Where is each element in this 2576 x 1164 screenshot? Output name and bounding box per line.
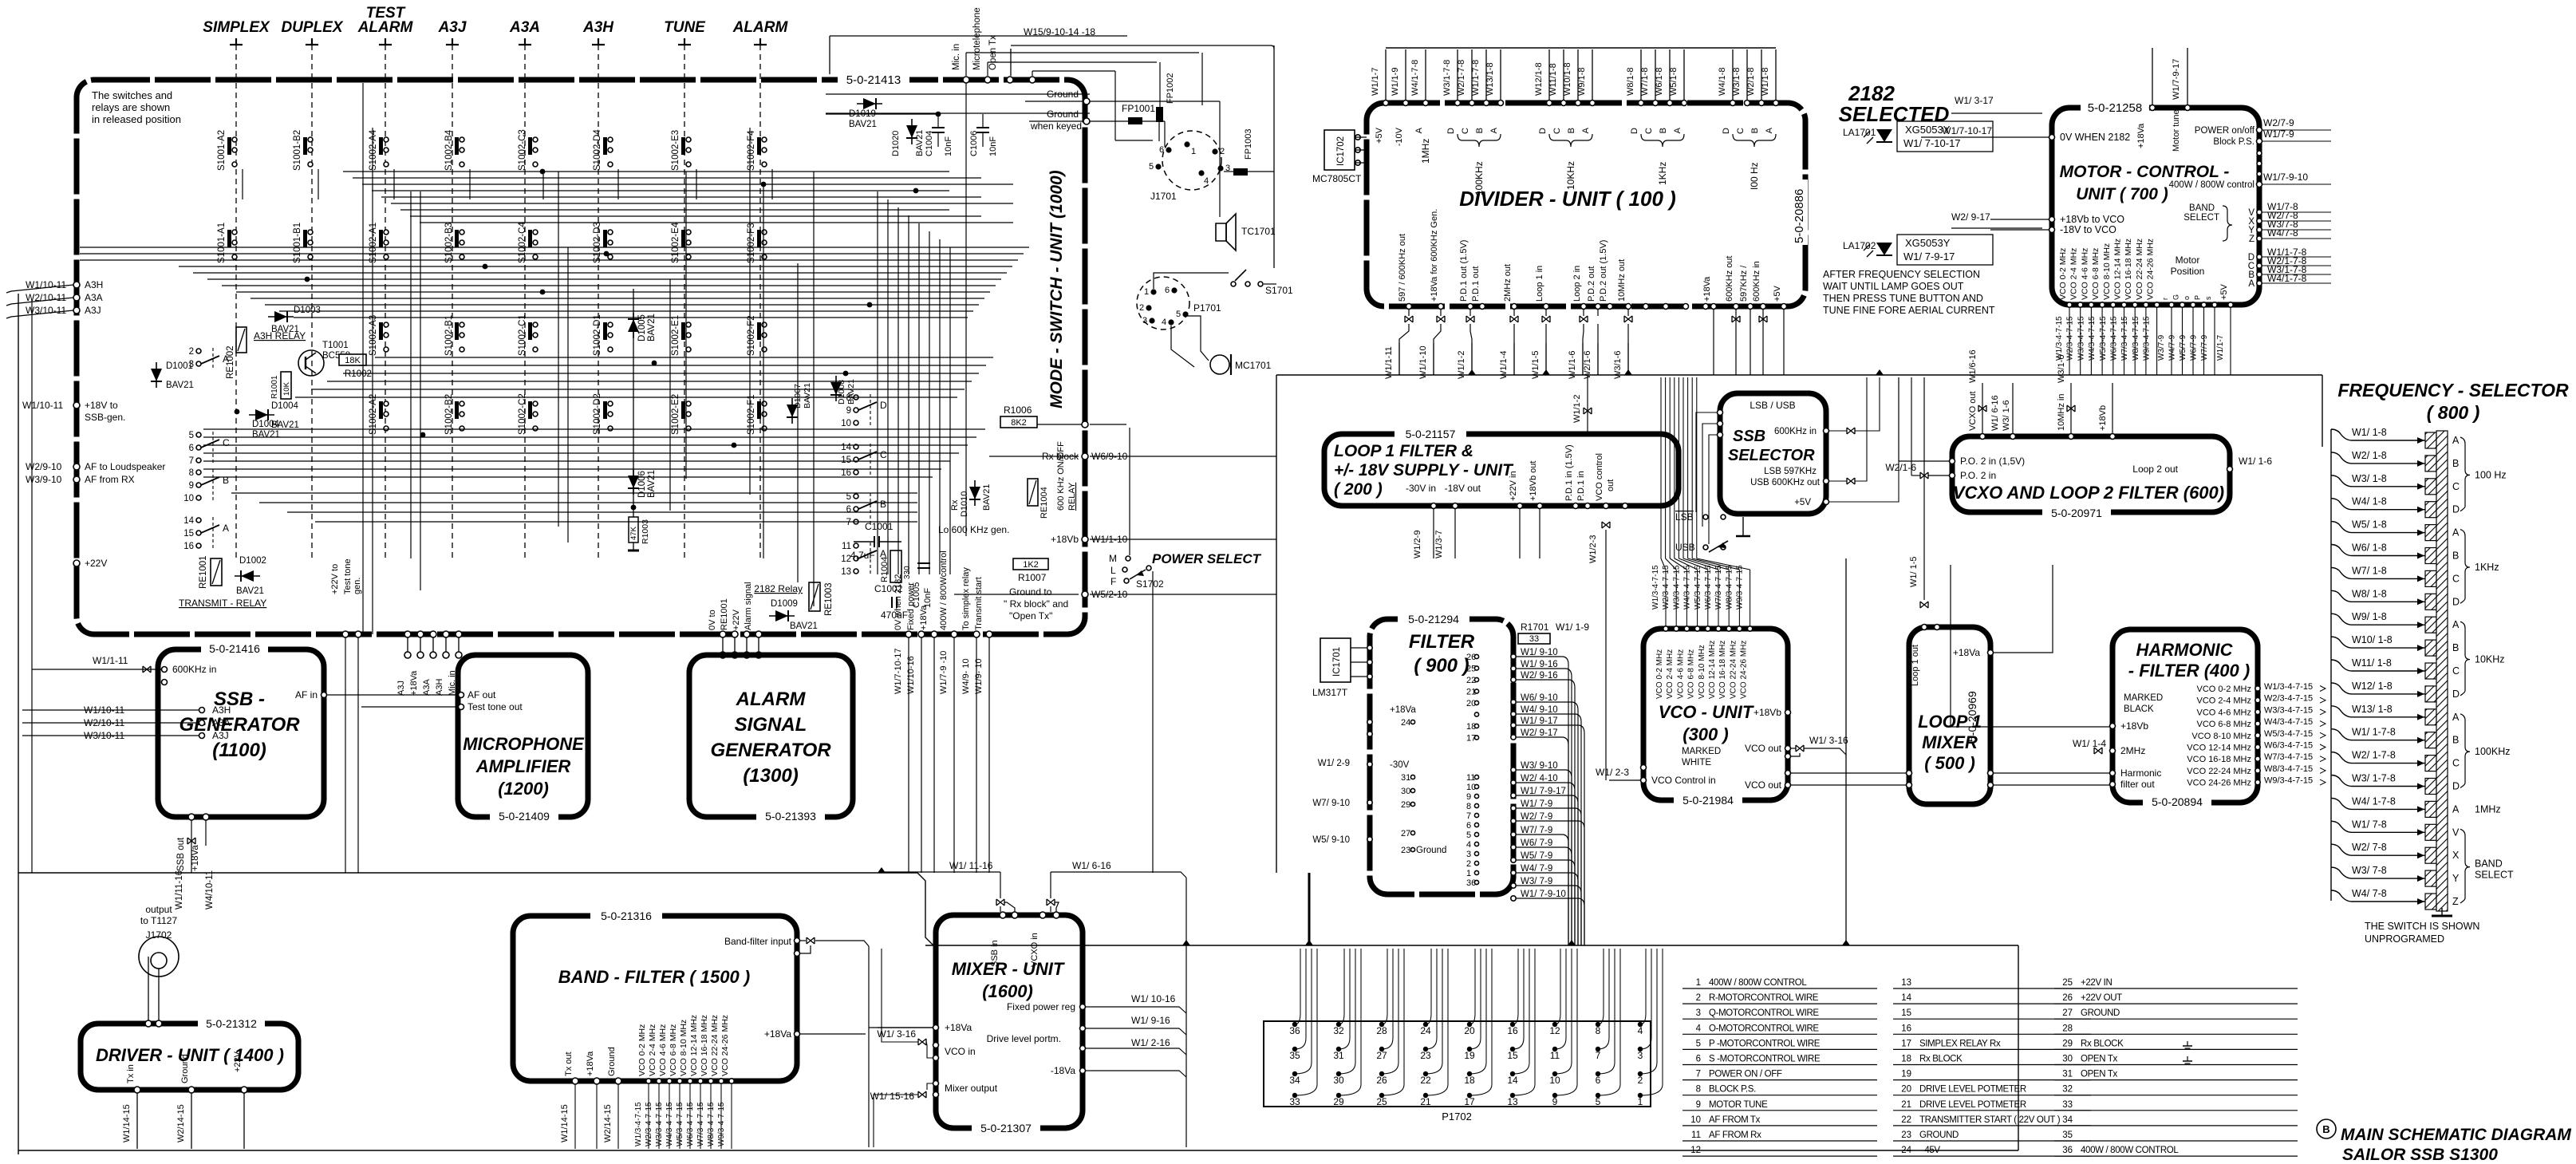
svg-text:MIXER - UNIT: MIXER - UNIT	[952, 959, 1065, 979]
svg-text:W1/10-11: W1/10-11	[22, 400, 63, 411]
svg-text:W1/ 3-16: W1/ 3-16	[877, 1028, 916, 1040]
svg-text:P.O. 2 in: P.O. 2 in	[1960, 470, 1996, 481]
svg-text:5-0-21258: 5-0-21258	[2088, 101, 2142, 115]
svg-text:R1003: R1003	[641, 519, 650, 544]
relay contact C 5-7	[189, 431, 230, 466]
svg-text:W1/ 2-16: W1/ 2-16	[1131, 1037, 1170, 1048]
svg-text:19: 19	[1901, 1070, 1911, 1079]
svg-text:+18Va: +18Va	[919, 605, 929, 630]
svg-text:W7/ 9-10: W7/ 9-10	[1312, 799, 1350, 808]
svg-text:Position: Position	[2171, 266, 2205, 277]
relay contact A 11-13	[841, 542, 886, 577]
svg-text:D1005: D1005	[637, 314, 647, 341]
svg-text:29: 29	[1333, 1096, 1344, 1107]
svg-text:out: out	[1606, 479, 1615, 491]
svg-text:W2/9-10: W2/9-10	[26, 461, 62, 472]
svg-text:W6/3-4-7-15: W6/3-4-7-15	[2110, 316, 2119, 361]
svg-text:7: 7	[846, 518, 851, 527]
p1702 fan wires	[1295, 949, 1300, 1024]
block ssb-generator 1100	[158, 649, 324, 817]
relay RE1001	[211, 558, 222, 586]
svg-text:C: C	[2452, 665, 2460, 677]
svg-text:W7/ 7-9: W7/ 7-9	[1521, 826, 1552, 835]
svg-text:W1/ 7-10-17: W1/ 7-10-17	[1903, 137, 1961, 149]
svg-text:VCO out: VCO out	[1745, 779, 1782, 791]
svg-text:5-0-21413: 5-0-21413	[846, 73, 901, 87]
svg-text:9: 9	[189, 481, 194, 491]
svg-text:XG5053Y: XG5053Y	[1905, 237, 1951, 249]
switch S1002-A2	[369, 394, 389, 435]
svg-text:30: 30	[1401, 787, 1410, 796]
svg-text:VCO 12-14 MHz: VCO 12-14 MHz	[1708, 641, 1717, 699]
svg-text:W1/ 10-16: W1/ 10-16	[1131, 993, 1176, 1004]
connector J1701	[1162, 131, 1221, 190]
svg-text:5: 5	[1176, 310, 1181, 319]
svg-text:W3/3-4-7-15: W3/3-4-7-15	[1672, 565, 1681, 610]
svg-text:600KHz in: 600KHz in	[172, 664, 216, 675]
block driver unit 1400	[81, 1024, 298, 1090]
svg-text:O-MOTORCONTROL WIRE: O-MOTORCONTROL WIRE	[1709, 1024, 1819, 1033]
svg-text:LA1701: LA1701	[1843, 127, 1876, 138]
svg-text:A3A: A3A	[85, 292, 103, 303]
svg-text:2: 2	[1220, 147, 1225, 156]
svg-text:14: 14	[1901, 993, 1911, 1003]
sheet title	[2317, 1119, 2336, 1138]
svg-text:W7/3-4-7-15: W7/3-4-7-15	[696, 1102, 705, 1146]
svg-text:W6/1-8: W6/1-8	[1655, 68, 1664, 96]
svg-text:600 KHz ON/OFF: 600 KHz ON/OFF	[1056, 441, 1066, 511]
svg-text:+18Vb: +18Vb	[1051, 534, 1079, 545]
switch S1002-D1	[593, 314, 613, 356]
svg-text:4: 4	[1638, 1025, 1643, 1036]
svg-text:VCO 2-4 MHz: VCO 2-4 MHz	[648, 1024, 657, 1076]
svg-text:W12/1-8: W12/1-8	[1534, 62, 1544, 96]
svg-text:A: A	[2452, 527, 2460, 539]
svg-text:9: 9	[1552, 1096, 1558, 1107]
svg-text:R1701: R1701	[1521, 621, 1549, 633]
svg-text:W1/ 2-9: W1/ 2-9	[1318, 759, 1350, 768]
svg-text:P.D.1 out: P.D.1 out	[1471, 266, 1481, 302]
svg-text:A: A	[2452, 712, 2460, 723]
svg-text:MODE - SWITCH - UNIT (1000): MODE - SWITCH - UNIT (1000)	[1047, 170, 1066, 408]
svg-text:8: 8	[1466, 802, 1471, 811]
block mode-switch-unit 1000	[77, 80, 1085, 634]
svg-text:W5/3-4-7-15: W5/3-4-7-15	[2264, 729, 2313, 739]
svg-text:S1002-E3: S1002-E3	[671, 130, 680, 171]
svg-text:AF in: AF in	[295, 689, 318, 700]
svg-text:D: D	[880, 400, 887, 411]
svg-text:P.O. 2 in (1,5V): P.O. 2 in (1,5V)	[1960, 456, 2025, 467]
motor W wires to selector bus	[2262, 211, 2331, 213]
svg-text:relays are shown: relays are shown	[92, 101, 170, 113]
svg-text:2: 2	[1638, 1075, 1643, 1086]
block alarm signal generator 1300	[689, 655, 853, 817]
svg-text:4: 4	[1204, 176, 1209, 186]
switch S1002-B3	[444, 223, 464, 263]
switch S1002-C4	[518, 222, 538, 263]
svg-text:+5V: +5V	[2219, 283, 2229, 300]
svg-text:5-0-21393: 5-0-21393	[765, 810, 816, 823]
svg-text:W1/ 9-10: W1/ 9-10	[1521, 648, 1558, 657]
svg-text:+18Va: +18Va	[2136, 123, 2146, 148]
svg-text:A3H: A3H	[85, 279, 103, 290]
svg-text:LOOP 1 FILTER &: LOOP 1 FILTER &	[1334, 442, 1473, 460]
svg-text:A3J: A3J	[212, 730, 229, 741]
diode D1006	[628, 469, 639, 495]
svg-text:2: 2	[189, 347, 194, 357]
svg-text:C: C	[2452, 573, 2460, 584]
svg-text:AF from RX: AF from RX	[85, 474, 135, 485]
svg-text:10nF: 10nF	[944, 136, 953, 156]
svg-text:Harmonic: Harmonic	[2120, 767, 2161, 779]
switch S1002-C3	[518, 129, 538, 171]
svg-text:SSB: SSB	[1733, 428, 1765, 445]
svg-text:W6/ 7-9: W6/ 7-9	[1521, 838, 1552, 848]
svg-text:W13/1-8: W13/1-8	[1485, 62, 1495, 96]
svg-text:W1/7-10-17: W1/7-10-17	[1942, 125, 1992, 136]
switch S1002-A3	[369, 315, 389, 356]
svg-text:AF FROM Rx: AF FROM Rx	[1709, 1130, 1761, 1140]
svg-text:S1002-A2: S1002-A2	[369, 394, 378, 435]
svg-text:W3/9-10: W3/9-10	[26, 474, 62, 485]
svg-text:+18Vb out: +18Vb out	[1529, 461, 1538, 501]
svg-text:15: 15	[183, 529, 194, 539]
svg-text:W1/1-11: W1/1-11	[1384, 346, 1394, 379]
svg-text:Motor tune: Motor tune	[2172, 109, 2181, 152]
svg-text:D1004: D1004	[252, 420, 279, 429]
svg-text:VCO 4-6 MHz: VCO 4-6 MHz	[658, 1024, 668, 1076]
svg-text:Tx out: Tx out	[564, 1052, 574, 1076]
svg-text:W10/1-8: W10/1-8	[1563, 62, 1572, 96]
svg-text:-18V to VCO: -18V to VCO	[2060, 224, 2116, 235]
svg-text:10MHz in: 10MHz in	[2057, 394, 2066, 431]
junction triangles	[1468, 369, 1476, 375]
svg-text:5-0-21294: 5-0-21294	[1408, 613, 1459, 625]
svg-text:OPEN Tx: OPEN Tx	[2081, 1070, 2118, 1079]
svg-text:A3A: A3A	[422, 679, 432, 696]
diode D1009	[769, 610, 795, 621]
svg-text:34: 34	[2062, 1115, 2073, 1125]
svg-text:+22V: +22V	[732, 609, 741, 630]
svg-text:VCO 8-10 MHz: VCO 8-10 MHz	[2102, 243, 2112, 300]
svg-text:VCO 4-6 MHz: VCO 4-6 MHz	[1676, 649, 1685, 699]
diode D1002	[235, 570, 260, 582]
misc long wires	[826, 93, 1090, 95]
svg-text:W1/ 7-8: W1/ 7-8	[2352, 819, 2387, 830]
svg-text:SAILOR SSB S1300: SAILOR SSB S1300	[2342, 1146, 2498, 1164]
svg-text:W3/ 7-9: W3/ 7-9	[1521, 877, 1552, 886]
switch S1001-B1	[293, 223, 313, 263]
svg-text:26: 26	[1376, 1075, 1387, 1086]
svg-text:S1002-B3: S1002-B3	[444, 223, 454, 263]
svg-text:W1/3-4-7-15: W1/3-4-7-15	[2055, 316, 2064, 361]
svg-text:11: 11	[1466, 773, 1475, 783]
svg-text:B: B	[2452, 458, 2459, 469]
svg-text:SELECT: SELECT	[2475, 870, 2514, 881]
svg-text:R1002: R1002	[345, 369, 372, 379]
svg-text:+18Va: +18Va	[764, 1028, 791, 1040]
svg-text:W1/11-16: W1/11-16	[175, 870, 184, 909]
svg-text:FP1003: FP1003	[1244, 128, 1253, 160]
svg-text:B: B	[1567, 128, 1576, 133]
switch S1002-D3	[593, 222, 613, 263]
svg-text:- FILTER (400 ): - FILTER (400 )	[2128, 661, 2250, 681]
svg-text:W5/3-4-7-15: W5/3-4-7-15	[1694, 565, 1702, 610]
svg-text:W2/14-15: W2/14-15	[176, 1104, 186, 1142]
svg-text:10: 10	[841, 419, 851, 428]
svg-text:BAV21: BAV21	[982, 484, 992, 511]
svg-text:( 200 ): ( 200 )	[1334, 480, 1383, 499]
svg-text:W1/ 11-16: W1/ 11-16	[949, 860, 993, 871]
svg-text:Tx in: Tx in	[126, 1064, 136, 1083]
svg-text:The switches and: The switches and	[92, 89, 172, 101]
svg-text:W1/ 1-6: W1/ 1-6	[2239, 456, 2272, 467]
svg-text:GENERATOR: GENERATOR	[179, 714, 300, 736]
svg-text:22: 22	[1901, 1115, 1911, 1125]
svg-text:VCO 0-2 MHz: VCO 0-2 MHz	[637, 1024, 647, 1076]
svg-text:9: 9	[1696, 1100, 1701, 1110]
svg-text:W9/3-4-7-15: W9/3-4-7-15	[2143, 316, 2152, 361]
svg-text:(1300): (1300)	[743, 765, 798, 787]
svg-text:W1/1-9: W1/1-9	[1391, 68, 1400, 96]
svg-text:25: 25	[1376, 1096, 1387, 1107]
svg-text:W3/3-4-7-15: W3/3-4-7-15	[655, 1102, 664, 1146]
block band-filter 1500	[513, 916, 797, 1081]
svg-text:W4/7-9: W4/7-9	[2168, 334, 2177, 361]
block harmonic filter 400	[2112, 629, 2258, 803]
svg-text:20: 20	[1901, 1085, 1911, 1095]
svg-text:5-0-21984: 5-0-21984	[1682, 794, 1734, 807]
block mixer unit 1600	[936, 915, 1083, 1128]
svg-text:26: 26	[2062, 993, 2073, 1003]
svg-text:VCO 22-24 MHz: VCO 22-24 MHz	[1729, 641, 1738, 699]
svg-text:5-0-20894: 5-0-20894	[2152, 795, 2203, 808]
svg-text:TC1701: TC1701	[1241, 226, 1276, 237]
svg-text:6: 6	[846, 505, 851, 515]
svg-text:100KHz: 100KHz	[1473, 161, 1485, 195]
svg-text:B: B	[2452, 550, 2459, 562]
svg-text:W4/3-4-7-15: W4/3-4-7-15	[2264, 717, 2313, 727]
svg-text:RELAY: RELAY	[1067, 482, 1077, 511]
svg-text:Mixer output: Mixer output	[945, 1083, 998, 1094]
svg-text:R1007: R1007	[1018, 572, 1047, 583]
svg-text:8: 8	[846, 393, 851, 403]
svg-text:+18Va for 600KHz Gen.: +18Va for 600KHz Gen.	[1430, 209, 1439, 302]
svg-text:+22V: +22V	[85, 558, 107, 569]
svg-text:100KHz: 100KHz	[2475, 746, 2510, 757]
svg-text:W1/1-8: W1/1-8	[1761, 68, 1770, 96]
svg-text:W4/9- 10: W4/9- 10	[961, 658, 971, 694]
svg-text:+18Va: +18Va	[1953, 647, 1980, 658]
svg-text:TRANSMIT - RELAY: TRANSMIT - RELAY	[179, 598, 266, 609]
svg-text:Band-filter input: Band-filter input	[724, 936, 792, 947]
connector P1701	[1137, 277, 1189, 329]
svg-text:Y: Y	[2452, 873, 2460, 884]
svg-text:32: 32	[1333, 1025, 1344, 1036]
svg-text:BAV21: BAV21	[166, 381, 194, 390]
svg-text:W4/1-7-8: W4/1-7-8	[1410, 60, 1420, 96]
svg-text:WAIT UNTIL LAMP GOES OUT: WAIT UNTIL LAMP GOES OUT	[1823, 281, 1964, 292]
svg-text:(1200): (1200)	[498, 779, 549, 799]
svg-text:33: 33	[1529, 634, 1539, 644]
svg-text:VCO 0-2 MHz: VCO 0-2 MHz	[2197, 685, 2251, 694]
svg-text:TRANSMITTER START ( 22V OUT ): TRANSMITTER START ( 22V OUT )	[1919, 1115, 2061, 1125]
svg-text:31: 31	[1401, 773, 1410, 783]
svg-text:31: 31	[2062, 1070, 2073, 1079]
svg-text:W2/ 1-8: W2/ 1-8	[2352, 450, 2387, 461]
microphone MC1701	[1210, 355, 1229, 374]
svg-text:24: 24	[1420, 1025, 1431, 1036]
svg-text:VCO 22-24 MHz: VCO 22-24 MHz	[2187, 767, 2251, 776]
svg-text:P.D.1 in: P.D.1 in	[1576, 471, 1586, 501]
relay contact A 2-3	[189, 347, 229, 369]
svg-text:POWER ON / OFF: POWER ON / OFF	[1709, 1070, 1782, 1079]
svg-text:W4/ 1-7-8: W4/ 1-7-8	[2352, 795, 2396, 807]
svg-text:35: 35	[1289, 1050, 1300, 1061]
svg-text:S1002-D4: S1002-D4	[593, 129, 602, 171]
svg-text:FP1001: FP1001	[1122, 103, 1155, 114]
svg-text:W1/ 1-5: W1/ 1-5	[1909, 556, 1919, 587]
svg-text:A3J: A3J	[396, 681, 406, 696]
svg-text:AF to Loudspeaker: AF to Loudspeaker	[85, 461, 165, 472]
svg-text:D1004: D1004	[271, 401, 298, 411]
svg-text:D: D	[1630, 128, 1639, 134]
svg-text:D: D	[1722, 128, 1731, 134]
block loop1 filter 200	[1324, 434, 1679, 506]
freq selector left bus	[2330, 429, 2332, 901]
svg-text:4: 4	[1466, 840, 1471, 850]
relay contact B 5-7	[846, 492, 886, 527]
svg-text:4: 4	[1696, 1024, 1702, 1033]
svg-text:W4/3-4-7-15: W4/3-4-7-15	[665, 1102, 674, 1146]
svg-text:MC1701: MC1701	[1235, 360, 1272, 371]
svg-text:VCO 2-4 MHz: VCO 2-4 MHz	[1666, 649, 1675, 699]
svg-text:6: 6	[1159, 145, 1164, 155]
svg-text:W3/3-4-7-15: W3/3-4-7-15	[2264, 705, 2313, 715]
svg-text:W7/3-4-7-15: W7/3-4-7-15	[2120, 316, 2129, 361]
svg-text:30: 30	[1333, 1075, 1344, 1086]
svg-text:12: 12	[1549, 1025, 1560, 1036]
svg-text:0V to: 0V to	[708, 610, 717, 630]
svg-text:Alarm signal: Alarm signal	[744, 582, 753, 630]
svg-text:C1006: C1006	[969, 131, 979, 156]
svg-text:400W / 800W CONTROL: 400W / 800W CONTROL	[1709, 978, 1807, 988]
svg-text:OPEN Tx: OPEN Tx	[2081, 1055, 2118, 1064]
svg-text:BAV21: BAV21	[236, 586, 264, 596]
svg-text:10: 10	[1690, 1115, 1701, 1125]
block ssb selector	[1720, 393, 1826, 514]
svg-text:BAV21: BAV21	[647, 470, 657, 498]
svg-text:RE1002: RE1002	[226, 345, 235, 379]
svg-text:+18Vb: +18Vb	[2098, 405, 2108, 431]
svg-text:W1/3-4-7-15: W1/3-4-7-15	[634, 1102, 643, 1146]
svg-text:C: C	[880, 449, 887, 460]
vco300 top pins	[1663, 626, 1668, 631]
svg-text:10MHz out: 10MHz out	[1617, 259, 1627, 302]
svg-text:VCO - UNIT: VCO - UNIT	[1659, 702, 1754, 722]
motor bottom pins VCO	[2067, 302, 2072, 307]
svg-text:VCO 16-18 MHz: VCO 16-18 MHz	[1718, 641, 1727, 699]
svg-text:W4/ 9-10: W4/ 9-10	[1521, 705, 1558, 715]
svg-text:S1002-C2: S1002-C2	[518, 393, 527, 435]
svg-text:4: 4	[1162, 318, 1166, 327]
svg-text:B: B	[1475, 128, 1485, 133]
wire left vertical bus	[18, 294, 19, 1154]
svg-text:W1/7-9-17: W1/7-9-17	[2172, 59, 2181, 100]
svg-text:C: C	[1644, 128, 1654, 134]
svg-text:S1702: S1702	[1136, 578, 1164, 590]
svg-text:W6/ 1-8: W6/ 1-8	[2352, 543, 2387, 554]
svg-text:D1001: D1001	[166, 361, 193, 371]
svg-text:when keyed: when keyed	[1030, 120, 1082, 132]
svg-text:29: 29	[1401, 800, 1410, 810]
svg-text:SIMPLEX RELAY Rx: SIMPLEX RELAY Rx	[1919, 1039, 2001, 1048]
svg-text:D1003: D1003	[294, 306, 321, 315]
block vcxo loop2 600	[1952, 436, 2230, 512]
svg-text:VCO 12-14 MHz: VCO 12-14 MHz	[689, 1015, 699, 1076]
svg-text:1: 1	[1144, 287, 1149, 297]
block loop1 mixer 500	[1909, 627, 1990, 804]
svg-text:A: A	[2452, 435, 2460, 446]
switch S1002-E1	[671, 315, 691, 356]
svg-text:Microtelephone: Microtelephone	[972, 7, 982, 70]
svg-text:VCO out: VCO out	[1745, 743, 1782, 754]
svg-text:Test tone: Test tone	[343, 558, 353, 594]
svg-text:VCO 16-18 MHz: VCO 16-18 MHz	[2187, 755, 2251, 764]
svg-text:+18Va: +18Va	[409, 670, 419, 696]
svg-text:5-0-21409: 5-0-21409	[499, 810, 550, 823]
svg-text:RE1001: RE1001	[720, 598, 729, 630]
svg-text:SSB out: SSB out	[176, 837, 186, 871]
switch S1002-F3	[747, 223, 767, 263]
relay contact B 8-10	[183, 468, 229, 503]
svg-text:W3/1-7-8: W3/1-7-8	[1442, 60, 1452, 96]
svg-text:W2/1-8: W2/1-8	[1746, 68, 1756, 96]
svg-text:5-0-20886: 5-0-20886	[1793, 189, 1806, 243]
resistor R1001	[281, 372, 291, 399]
svg-text:P1701: P1701	[1193, 302, 1221, 314]
svg-text:W1/ 6-16: W1/ 6-16	[1072, 860, 1111, 871]
svg-text:FREQUENCY - SELECTOR: FREQUENCY - SELECTOR	[2337, 380, 2569, 400]
svg-text:23: 23	[1901, 1130, 1911, 1140]
svg-text:Motor: Motor	[2176, 255, 2200, 266]
svg-text:THE SWITCH IS SHOWN: THE SWITCH IS SHOWN	[2365, 921, 2479, 932]
svg-text:15: 15	[1507, 1050, 1518, 1061]
svg-text:Ground to: Ground to	[1009, 586, 1052, 598]
switch S1002-D2	[593, 393, 613, 435]
svg-text:+18Vb: +18Vb	[2120, 720, 2148, 732]
LED LA1702	[1876, 243, 1892, 255]
svg-text:S1001-A2: S1001-A2	[217, 130, 227, 171]
switch S1701	[1235, 270, 1246, 281]
svg-text:Lo 600 KHz gen.: Lo 600 KHz gen.	[938, 524, 1009, 535]
svg-text:VCO 4-6 MHz: VCO 4-6 MHz	[2080, 248, 2089, 300]
svg-text:MOTOR TUNE: MOTOR TUNE	[1709, 1100, 1768, 1110]
svg-text:M: M	[1109, 553, 1117, 564]
svg-text:VCO 2-4 MHz: VCO 2-4 MHz	[2197, 696, 2251, 706]
svg-text:S1002-D1: S1002-D1	[593, 314, 602, 356]
svg-text:W2/ 7-9: W2/ 7-9	[1521, 812, 1552, 822]
svg-text:VCO 6-8 MHz: VCO 6-8 MHz	[2091, 248, 2101, 300]
svg-text:33: 33	[1289, 1096, 1300, 1107]
svg-text:1K2: 1K2	[1023, 560, 1039, 570]
svg-text:D1008: D1008	[837, 380, 846, 404]
svg-text:W3/ 7-8: W3/ 7-8	[2352, 865, 2387, 876]
svg-text:A3H: A3H	[582, 19, 614, 36]
svg-text:330: 330	[903, 566, 912, 579]
harmonic right pins	[2255, 686, 2260, 691]
svg-text:7: 7	[1466, 811, 1471, 821]
